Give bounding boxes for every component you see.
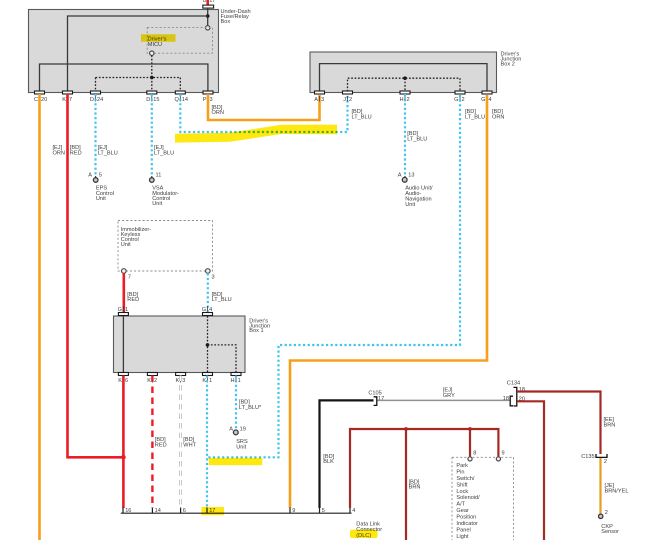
junction dot BRN 1 [404, 427, 408, 431]
svg-text:Box: Box [221, 19, 231, 25]
pin K6 [118, 373, 128, 376]
wire G2 light blue BD LT_BLU [207, 95, 460, 457]
svg-text:Lock: Lock [456, 489, 468, 495]
svg-text:H: H [399, 97, 403, 103]
svg-text:LT_BLU: LT_BLU [98, 150, 118, 156]
wire terminal7 to G1 red BD RED [123, 273, 126, 312]
DLC pin 6 [180, 508, 182, 514]
svg-text:Unit: Unit [121, 242, 131, 248]
svg-text:Panel: Panel [456, 528, 470, 534]
svg-text:9: 9 [292, 508, 295, 514]
svg-text:K: K [175, 378, 179, 384]
wire U17 red stub [206, 0, 209, 5]
driver's junction box 2 [310, 52, 497, 93]
svg-text:C134: C134 [507, 381, 520, 387]
wire C20 orange EJ ORN [38, 94, 41, 540]
svg-text:D: D [146, 97, 150, 103]
svg-text:BRN: BRN [409, 485, 421, 491]
wire Q14 to J2 light blue [180, 94, 347, 132]
wire DLC4 maroon BD BRN bus [350, 429, 498, 508]
wire K6 red to junction [122, 376, 125, 458]
wire G4 orange BD ORN [290, 95, 487, 508]
svg-text:WHT: WHT [183, 442, 196, 448]
junction dot box1 [206, 343, 210, 347]
terminal 11 VSA [151, 176, 153, 178]
terminal A19 SRS [233, 430, 238, 435]
wire dashed to pin D24 [95, 78, 97, 92]
svg-text:2: 2 [349, 97, 352, 103]
svg-text:C135: C135 [581, 454, 594, 460]
svg-text:2: 2 [462, 97, 465, 103]
MICU output circle [150, 51, 154, 55]
svg-text:2: 2 [154, 378, 157, 384]
terminal A5 EPS [95, 176, 97, 178]
svg-text:4: 4 [352, 508, 355, 514]
pin G1 [118, 313, 128, 316]
svg-text:Unit: Unit [405, 202, 415, 208]
pin K7 [63, 91, 73, 94]
DLC pin 14 [151, 508, 153, 514]
svg-text:19: 19 [240, 426, 246, 432]
svg-text:K: K [62, 97, 66, 103]
svg-text:Q: Q [174, 97, 179, 103]
junction dot H2 [403, 76, 407, 80]
svg-text:LT_BLU*: LT_BLU* [239, 405, 262, 411]
svg-text:LT_BLU: LT_BLU [407, 136, 427, 142]
svg-text:Indicator: Indicator [456, 521, 478, 527]
wire red junction horizontal [66, 456, 123, 459]
wire G1 to K6 internal [122, 316, 124, 373]
DLC pin 4 [349, 508, 351, 514]
svg-text:3: 3 [212, 275, 215, 281]
svg-text:Light: Light [456, 534, 469, 540]
pin H2 [400, 91, 410, 94]
svg-text:G: G [481, 97, 485, 103]
svg-text:D: D [90, 97, 94, 103]
wire C20 to P3 internal [40, 64, 208, 92]
wire dashed to pin D15 [151, 78, 153, 92]
wire dashed to pin H2 [404, 78, 406, 91]
svg-text:Solenoid/: Solenoid/ [456, 495, 480, 501]
wire H2 light blue BD LT_BLU [404, 94, 406, 176]
DLC pin 9 [289, 508, 291, 514]
svg-text:Unit: Unit [236, 444, 246, 450]
pin G4 box1 [203, 313, 213, 316]
wire dashed bus D24-Q14 [96, 77, 181, 79]
svg-text:1: 1 [209, 378, 212, 384]
svg-text:7: 7 [128, 275, 131, 281]
pin C20 [35, 91, 45, 94]
svg-text:U: U [202, 0, 206, 4]
svg-text:Box 1: Box 1 [249, 328, 263, 334]
svg-text:P: P [203, 97, 207, 103]
highlight DLC pin 17 [202, 507, 225, 515]
svg-text:LT_BLU: LT_BLU [212, 297, 232, 303]
svg-text:5: 5 [322, 508, 325, 514]
svg-text:C: C [34, 97, 38, 103]
svg-text:2: 2 [407, 97, 410, 103]
connector C105 [374, 397, 377, 406]
svg-text:18: 18 [503, 396, 509, 402]
under-dash fuse/relay box [29, 10, 219, 93]
svg-text:1: 1 [125, 307, 128, 313]
highlight Q14-J2 wire [175, 125, 337, 143]
svg-text:Pin: Pin [456, 469, 464, 475]
svg-text:16: 16 [125, 508, 131, 514]
MICU input circle [206, 26, 210, 30]
wire C135 to CKP JE BRN/YEL [599, 458, 601, 514]
terminal 2 CKP sensor [599, 514, 603, 518]
data link connector DLC face [121, 512, 352, 514]
pin P3 [203, 91, 213, 94]
wire U17 to junction [207, 8, 209, 26]
pin U17 [203, 5, 214, 8]
svg-text:Sensor: Sensor [601, 529, 619, 535]
svg-text:LT_BLU: LT_BLU [352, 114, 372, 120]
svg-text:4: 4 [489, 97, 492, 103]
pin D24 [91, 91, 101, 94]
svg-text:15: 15 [153, 97, 159, 103]
wire BRN to bottom [405, 429, 407, 540]
wire H1 light blue BD LT_BLU* [235, 376, 237, 431]
svg-text:G: G [118, 307, 122, 313]
svg-text:ORN: ORN [212, 110, 224, 116]
svg-text:4: 4 [209, 307, 212, 313]
pin Q14 [175, 91, 185, 94]
svg-text:Box 2: Box 2 [501, 61, 515, 67]
svg-text:A: A [88, 173, 92, 179]
svg-text:Gear: Gear [456, 508, 469, 514]
svg-text:LT_BLU: LT_BLU [154, 150, 174, 156]
svg-text:A/T: A/T [456, 502, 465, 508]
highlight driver's MICU [141, 34, 176, 41]
svg-text:A: A [398, 173, 402, 179]
svg-text:3: 3 [182, 378, 185, 384]
junction dot U17/K7 [206, 14, 210, 18]
pin G4 [482, 91, 492, 94]
immobilizer terminal 3 [206, 269, 211, 274]
svg-text:Park: Park [456, 463, 468, 469]
svg-text:20: 20 [41, 97, 47, 103]
DLC pin 16 [122, 508, 124, 514]
svg-text:Position: Position [456, 515, 476, 521]
svg-text:ORN: ORN [492, 114, 504, 120]
wire K3 white dashed BD WHT [179, 376, 182, 509]
svg-text:LT_BLU: LT_BLU [465, 114, 485, 120]
svg-text:K: K [202, 378, 206, 384]
wire junction to K7 [68, 16, 208, 92]
svg-text:BLK: BLK [323, 459, 334, 465]
immobilizer terminal 7 [122, 269, 127, 274]
pin D15 [147, 91, 157, 94]
wire K2 red dashed BD RED [151, 376, 153, 509]
wire D24 light blue EJ LT_BLU [94, 94, 96, 176]
terminal 8 park pin switch [468, 457, 472, 461]
wire K7 red BD RED [66, 94, 69, 457]
wire DLC5 black BD BLK [320, 400, 374, 508]
svg-text:24: 24 [97, 97, 103, 103]
wire dashed to pin Q14 [179, 78, 181, 92]
svg-text:K: K [118, 378, 122, 384]
wire G4 to K1 internal dashed [207, 316, 209, 373]
svg-text:6: 6 [183, 508, 186, 514]
pin H1 [231, 373, 241, 376]
wire red to DLC16 [122, 457, 125, 508]
svg-text:17: 17 [209, 0, 215, 4]
svg-text:6: 6 [125, 378, 128, 384]
svg-text:A: A [229, 426, 233, 432]
wire dashed to H1 internal [208, 345, 237, 373]
highlight DLC text [350, 530, 378, 538]
junction dot red [121, 455, 126, 460]
wire dashed J2-G2 internal [348, 78, 461, 91]
wire BRN to terminal 8 [469, 429, 471, 457]
driver's MICU dashed box [147, 27, 212, 53]
svg-text:5: 5 [99, 173, 102, 179]
pin A3 [315, 91, 325, 94]
svg-text:Switch/: Switch/ [456, 476, 474, 482]
wire P3 to A3 orange BD ORN [208, 94, 320, 120]
junction dot MICU bus [150, 76, 154, 80]
svg-text:K: K [147, 378, 151, 384]
svg-text:2: 2 [604, 459, 607, 465]
DLC pin 5 [319, 508, 321, 514]
pin K3 [176, 373, 186, 376]
connector C135 [596, 454, 607, 457]
highlight SRS wire [209, 458, 262, 465]
svg-text:14: 14 [155, 508, 161, 514]
park pin switch dashed box [452, 457, 514, 540]
immobilizer-keyless control unit dashed box [118, 221, 213, 272]
svg-text:9: 9 [502, 450, 505, 456]
svg-text:13: 13 [408, 173, 414, 179]
svg-text:RED: RED [70, 150, 82, 156]
svg-text:H: H [231, 378, 235, 384]
wire gray EJ GRY [378, 399, 510, 401]
svg-text:11: 11 [156, 173, 162, 179]
svg-text:Unit: Unit [96, 196, 106, 202]
svg-text:3: 3 [210, 97, 213, 103]
svg-text:14: 14 [182, 97, 188, 103]
wire K1 light blue to DLC17 [206, 376, 208, 509]
svg-text:ORN: ORN [53, 150, 65, 156]
pin G2 [455, 91, 465, 94]
pin K2 [147, 373, 157, 376]
svg-text:3: 3 [321, 97, 324, 103]
svg-text:J: J [343, 97, 346, 103]
svg-text:7: 7 [69, 97, 72, 103]
wire terminal3 to G4 light blue BD LT_BLU [207, 273, 209, 313]
svg-text:G: G [202, 307, 206, 313]
wire D15 light blue EJ LT_BLU [151, 94, 153, 176]
svg-text:BRN: BRN [604, 422, 616, 428]
pin J2 [343, 91, 353, 94]
svg-text:2: 2 [605, 510, 608, 516]
svg-text:Shift: Shift [456, 482, 468, 488]
junction dot BRN 2 [468, 427, 472, 431]
terminal 9 park pin switch [496, 457, 500, 461]
svg-text:A: A [314, 97, 318, 103]
svg-text:GRY: GRY [443, 393, 455, 399]
wire C134-18 maroon EE BRN [517, 392, 601, 455]
wire MICU output dashed [151, 55, 153, 77]
svg-text:8: 8 [473, 450, 476, 456]
svg-text:G: G [454, 97, 458, 103]
wire A3 to G4 internal [320, 64, 488, 92]
svg-text:BRN/YEL: BRN/YEL [605, 488, 629, 494]
DLC pin 17 [206, 508, 208, 514]
svg-text:Unit: Unit [152, 201, 162, 207]
terminal A13 audio [404, 176, 406, 178]
pin K1 [203, 373, 213, 376]
driver's junction box 1 [114, 316, 246, 373]
svg-text:1: 1 [238, 378, 241, 384]
svg-text:RED: RED [155, 442, 167, 448]
wire C134-20 maroon [517, 401, 544, 540]
svg-text:MICU: MICU [148, 42, 162, 48]
svg-text:RED: RED [127, 297, 139, 303]
